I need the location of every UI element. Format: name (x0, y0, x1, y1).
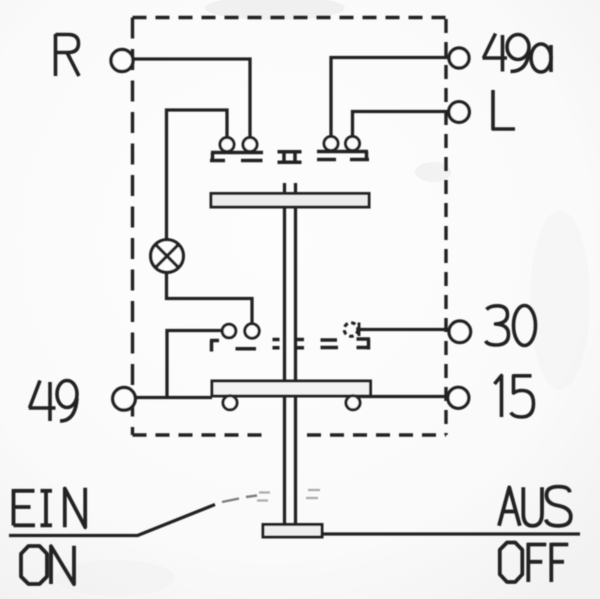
label 49 (29, 381, 77, 422)
wire lamp top to upper contact (167, 110, 228, 240)
label R (56, 34, 80, 76)
terminal R (111, 50, 133, 72)
terminal 15 (448, 387, 469, 408)
indicator lamp (151, 240, 184, 273)
middle contact dashed circle (30 side) (344, 323, 358, 337)
center fixed contact (I-beam) (278, 152, 302, 162)
upper contact circle 4 (L feed) (346, 137, 360, 151)
top-left fixed contact plate (210, 153, 263, 162)
actuator lever (EIN side, open) (9, 505, 215, 536)
wire 49a terminal to upper contact (331, 58, 449, 137)
plunger shaft (lower section) (285, 396, 296, 525)
wire lamp bottom to middle contact (167, 273, 253, 325)
actuator lever (AUS side) (322, 532, 580, 535)
wire terminal 15 to lower contact (360, 395, 449, 398)
middle contact circle right (lamp side) (245, 324, 259, 338)
label OFF (500, 543, 569, 583)
switch housing (dashed enclosure box) (133, 18, 448, 436)
label 49a (483, 34, 552, 73)
label 30 (486, 306, 536, 346)
middle fixed contact plate (dashed hidden lines) (210, 339, 370, 352)
upper contact circle 3 (49a feed) (324, 137, 338, 151)
plunger base plate (263, 525, 322, 538)
hidden lever marks near shaft (257, 490, 320, 501)
label 15 (495, 376, 534, 418)
label AUS (499, 487, 571, 526)
lower bridge contact dome right (346, 396, 360, 410)
wire L terminal to upper contact (353, 112, 450, 137)
top-right fixed contact plate (317, 152, 369, 161)
upper moving contact bridge (211, 194, 369, 208)
upper contact circle 1 (lamp feed) (220, 138, 234, 152)
lever hidden continuation dashes (222, 496, 257, 503)
lower moving contact bridge (212, 381, 371, 396)
upper contact circle 2 (R feed) (243, 138, 257, 152)
plunger shaft (upper section) (285, 207, 296, 381)
terminal 49 (113, 388, 136, 411)
terminal 49a (449, 48, 469, 68)
contact tick on 30 wire (358, 323, 361, 337)
wire terminal 30 to middle fixed contact (358, 328, 450, 331)
terminal 30 (449, 321, 471, 343)
wire R terminal to upper contact (133, 59, 250, 138)
terminal L (449, 102, 470, 123)
wire 49 terminal junction to middle contact (135, 331, 223, 398)
label L (493, 90, 515, 129)
label ON (21, 546, 74, 584)
label EIN (14, 488, 86, 528)
plunger stubs above upper bridge (285, 183, 296, 194)
middle contact circle left (49 side) (222, 324, 236, 338)
lower bridge contact dome left (223, 396, 237, 410)
